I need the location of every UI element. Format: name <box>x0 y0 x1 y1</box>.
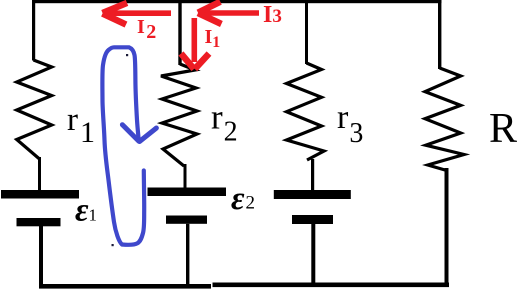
wire branch1 vertical upper <box>32 0 35 61</box>
current arrow I3 <box>198 2 259 24</box>
kirchhoff loop arrowhead (blue) <box>122 125 156 142</box>
ink speck near loop top <box>126 54 128 56</box>
kirchhoff loop lower right and bottom (blue) <box>122 171 144 245</box>
current arrow I1 <box>181 18 209 69</box>
resistor R1 <box>17 60 52 159</box>
svg-text:I3: I3 <box>263 2 282 28</box>
battery E1 long plate <box>1 190 79 199</box>
battery B3 long plate <box>274 190 351 199</box>
battery E2 long plate <box>148 188 227 197</box>
wire branch4 vertical lower <box>445 168 449 287</box>
resistor R3 <box>287 63 325 160</box>
resistor R2 <box>161 64 197 166</box>
wire r3 to battery B3 <box>311 159 314 191</box>
battery E2 short plate <box>166 216 207 224</box>
wire bottom left segment <box>39 284 211 289</box>
wire branch4 vertical upper <box>438 0 441 69</box>
resistor R4 <box>425 68 464 170</box>
wire branch2 vertical upper <box>178 0 181 65</box>
wire r2 to battery E2 <box>184 164 187 190</box>
battery B3 short plate <box>292 215 333 224</box>
kirchhoff loop (blue) <box>102 47 138 244</box>
wire bottom right segment <box>213 283 450 288</box>
wire branch3 vertical upper <box>305 0 308 64</box>
current arrow I2 <box>103 3 172 25</box>
ink speck near loop bottom <box>112 244 114 246</box>
wire top horizontal <box>32 0 442 3</box>
wire battery E1 to bottom <box>39 226 43 288</box>
wire battery E2 to bottom <box>186 224 189 286</box>
wire battery B3 to bottom <box>311 224 315 286</box>
wire r1 to battery E1 <box>38 157 41 191</box>
battery E1 short plate <box>17 218 61 226</box>
svg-text:R: R <box>489 106 517 152</box>
